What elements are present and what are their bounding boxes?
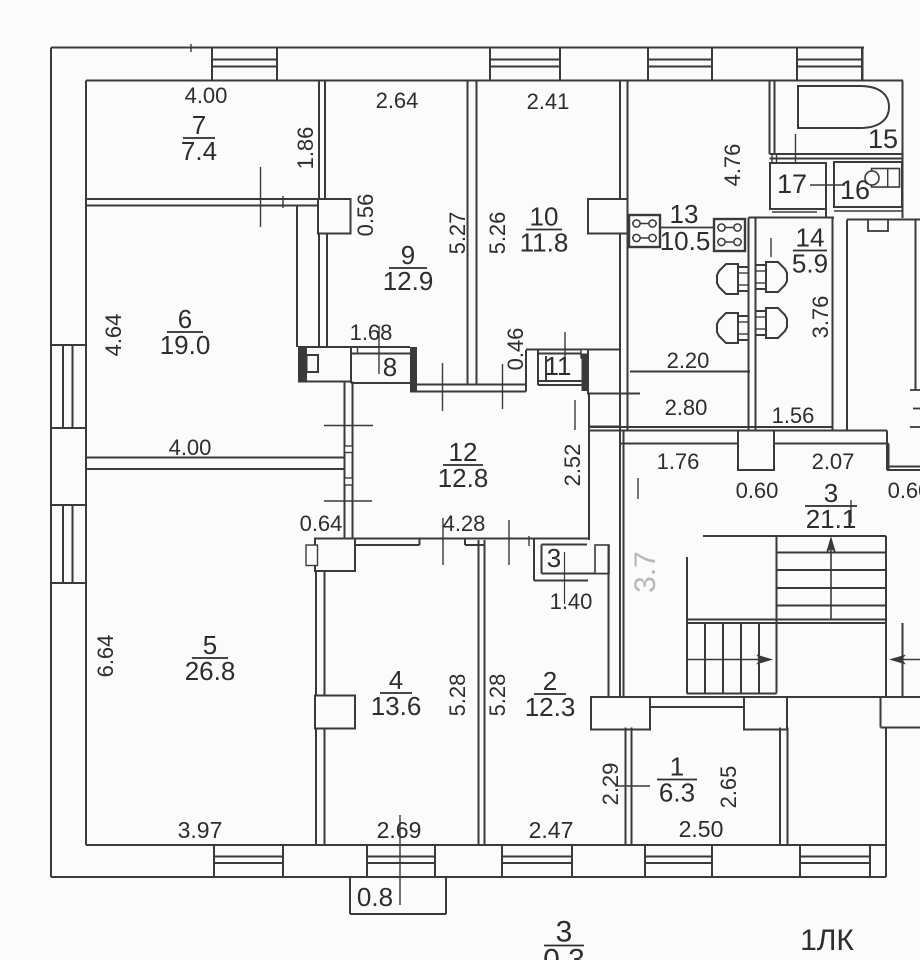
wall neighbour room east [915,220,917,391]
wall outer right upper line [902,81,904,219]
stair lower flight bottom [687,693,777,695]
block notch west [306,545,318,566]
dim 2.20 [667,348,710,373]
toilet east lower [756,308,788,338]
door tick room 2 to 1 [615,785,650,787]
svg-text:0.64: 0.64 [300,511,343,536]
dim 2.50 [679,816,724,842]
svg-text:4.00: 4.00 [185,83,228,108]
svg-text:3.7: 3.7 [629,551,662,593]
svg-text:2.20: 2.20 [667,348,710,373]
svg-text:0.60: 0.60 [888,478,920,503]
wall corridor 13 south header [630,371,750,373]
block mid on 5-4 wall [315,696,355,729]
dim 1.56 [772,403,815,428]
dim 0.60 right [888,478,920,503]
wall neighbour room north [847,219,920,221]
window top wall room 7 [212,48,277,81]
chimney block at 7-9-6 corner [318,199,351,234]
wall stair vestibule right step vertical [880,697,882,728]
wall between rooms 6 and 9 right lines [319,234,327,348]
wall between rooms 9 and 10 [468,81,477,385]
dim tick top wall [190,44,192,52]
stair upper flight box [777,536,887,697]
room 17 box [770,155,826,209]
svg-text:3: 3 [547,543,561,573]
room label 4 [371,665,422,721]
svg-text:4.64: 4.64 [101,314,126,357]
door tick room 15 [795,134,797,182]
svg-text:5.9: 5.9 [792,249,828,279]
dim tick 2.69 long [399,815,401,905]
dim 5.28 right vertical [485,674,510,717]
svg-text:2.80: 2.80 [665,395,708,420]
wall inner bottom line [86,844,886,846]
svg-text:2.41: 2.41 [527,89,570,114]
dim 2.41 top [527,89,570,114]
wall between corridor 13 and room 14 [749,218,756,431]
wall top of room 11 run [526,349,619,351]
wall neighbour room west [846,220,848,431]
wall between rooms 7 and 9 [319,81,325,200]
svg-text:1.76: 1.76 [657,449,700,474]
svg-text:3.97: 3.97 [178,817,223,843]
closet room 11 box [538,350,588,392]
sink in room 16 [865,169,900,188]
wall south of room 8 [410,385,526,392]
stair right arrow head [756,655,773,665]
svg-text:12.3: 12.3 [525,692,576,722]
porch box 0.8 [350,877,446,914]
bathtub in room 15 [798,86,889,128]
door jamb lower on 6-12 wall [345,478,353,485]
dim 0.46 vertical [503,328,528,371]
room label 11 [545,351,572,381]
room label 1 [657,752,697,808]
stair lower flight steps [705,623,777,694]
block room 1 north-west [591,697,650,730]
svg-text:21.1: 21.1 [806,504,857,534]
room 16 box [834,162,902,211]
room label 9 [383,240,434,296]
dim 1.68 [350,320,393,345]
door tick room 12 to 2 [508,520,510,565]
wall between rooms 4 and 2 [479,540,485,845]
window left wall room 5 [51,505,86,583]
stair left arrow [889,655,920,665]
room label 15 [868,124,898,154]
svg-text:0.46: 0.46 [503,328,528,371]
dim 1.86 vertical [293,127,318,170]
wall room 14 east [832,218,834,431]
door jamb upper on 6-12 wall [345,446,353,453]
svg-text:0.60: 0.60 [736,478,779,503]
svg-text:19.0: 19.0 [160,330,211,360]
svg-text:12.9: 12.9 [383,266,434,296]
svg-text:15: 15 [868,124,898,154]
wall between rooms 6 and 12 [345,382,353,539]
svg-text:12.8: 12.8 [438,463,489,493]
stair up arrow head [826,536,836,553]
stair right flight wall [902,623,904,697]
wall outer top line [51,47,864,49]
svg-text:2.07: 2.07 [812,449,855,474]
dim 4.76 vertical [720,144,745,187]
room label 10 [520,202,569,258]
wall between rooms 6 and 5 [86,458,345,470]
svg-text:8: 8 [383,352,397,382]
block room 1 north-east [744,697,787,730]
room label 16 [840,175,870,205]
door tick room 5 to 12 [324,500,372,502]
svg-text:10.5: 10.5 [660,226,711,256]
dim 4.00 mid [169,435,212,460]
dim 4.64 vertical [101,314,126,357]
dim 2.52 vertical [560,444,585,487]
dim 1.76 [657,449,700,474]
dim tick 1.76 west [637,478,639,499]
dim 2.80 [665,395,708,420]
wall top-right corner closure [862,48,864,82]
window left wall room 6 [51,345,86,428]
dim tick 2.07 east [850,500,852,523]
wall room 1 east [780,728,788,846]
svg-text:1.86: 1.86 [293,127,318,170]
dim 2.47 [529,817,574,843]
stair left wall [686,557,688,694]
wall hall 3 north outer [589,426,833,428]
dim 5.26 vertical [485,212,510,255]
room label 17 [777,169,807,199]
dim 0.56 vertical [353,194,378,237]
window marks right edge [910,390,920,427]
svg-text:4.76: 4.76 [720,144,745,187]
wall between rooms 7 and 6 [86,199,318,206]
wall outer bottom line [51,876,886,878]
room 17 east step [772,209,826,218]
label leader 13 [660,227,714,229]
svg-text:1ЛК: 1ЛК [800,924,854,957]
svg-text:4.28: 4.28 [443,511,486,536]
svg-text:17: 17 [777,169,807,199]
dim 3.97 [178,817,223,843]
wall hall south [620,696,920,698]
svg-text:26.8: 26.8 [185,656,236,686]
room label 7 [181,110,217,166]
wall inner top line [86,80,903,82]
dim 4.00 top [185,83,228,108]
dim 2.07 [812,449,855,474]
svg-text:1.40: 1.40 [550,589,593,614]
wall notch x529 [528,536,530,546]
dim 2.65 vertical [716,766,741,809]
dim 5.27 vertical [445,212,470,255]
dim 5.28 left vertical [445,674,470,717]
vent box east of 13 [714,219,745,251]
svg-text:13: 13 [670,199,699,229]
wall room 1 north inner [650,706,744,708]
wall room 15 west [770,81,775,155]
door tick room 6 to 12 [324,425,373,427]
dim 1.40 [550,589,593,614]
window top wall room 10 [490,48,560,81]
shaft block west part with niche [299,347,351,382]
svg-text:13.6: 13.6 [371,691,422,721]
wall step at x526 [525,350,527,392]
wall between rooms 6 and 9 left line [296,206,298,348]
label 1LK staircase [800,924,854,957]
wall outer right lower line [885,728,887,878]
window top wall room 15 [797,48,862,81]
dim 2.64 top [376,88,419,113]
dim 4.28 [443,511,486,536]
room label 3 hall [805,478,857,534]
svg-text:2.47: 2.47 [529,817,574,843]
svg-text:5.27: 5.27 [445,212,470,255]
chimney block room 11 east lower [588,394,640,541]
room label 2 [525,666,576,722]
chimney block room 10 east [588,199,628,234]
duct box right of closet 3 [595,545,609,574]
stair upper flight top line [703,535,886,537]
block at top of 5-4 wall [315,539,355,572]
dim tick 1.40 [564,552,566,604]
door tick 1.68 dimension [378,326,380,374]
dim tick 4.28 [442,518,444,565]
window bottom wall stair hall [800,845,870,877]
door tick room 9 entry [442,363,444,411]
wall hall 3 inner line east [620,443,889,445]
vent box west of 13 [629,215,660,247]
svg-text:5.28: 5.28 [485,674,510,717]
door tick room 10 south [502,364,504,409]
window bottom wall room 4 [367,845,435,877]
dim tick 2.80 west [574,400,576,430]
dim tick 0.46 [564,332,566,364]
dim 2.29 vertical [598,763,623,806]
wall between room 10 and corridor 13 [620,81,628,698]
wall between rooms 12 and 2 upper [355,539,588,546]
wall between rooms 5 and 4 [316,571,325,845]
dim 0.60 left [736,478,779,503]
svg-text:3.76: 3.76 [808,296,833,339]
svg-text:5.28: 5.28 [445,674,470,717]
entry door block [738,431,774,471]
svg-text:16: 16 [840,175,870,205]
window bottom wall room 1 [645,845,712,877]
window top wall room 13 [648,48,712,81]
window bottom wall room 2 [502,845,572,877]
pillar on neighbour north wall [868,220,888,232]
dim 3.7 vertical grey [629,551,662,593]
toilet west lower [717,313,749,343]
svg-text:2.65: 2.65 [716,766,741,809]
svg-text:7.4: 7.4 [181,136,217,166]
stair lower flight center line [687,659,764,661]
dim 2.69 [377,817,422,843]
wall room 1 west [626,728,632,846]
wall hall west second line [623,431,625,698]
dim tick 5.9 [770,238,772,257]
svg-text:5.26: 5.26 [485,212,510,255]
wall stair entry south lines [887,467,920,471]
svg-text:6.64: 6.64 [93,635,118,678]
toilet west upper [717,264,749,294]
svg-text:2.52: 2.52 [560,444,585,487]
dim 3.76 vertical [808,296,833,339]
room label 3 bottom [543,916,585,960]
wall hall 3 north inner [589,430,887,432]
svg-text:4.00: 4.00 [169,435,212,460]
closet 3 number [547,543,561,573]
wall notch at room 7-6 wall [282,196,284,208]
closet room 8 box [351,347,417,391]
chimney block room 11 east upper [588,350,620,394]
dim 0.64 [300,511,343,536]
closet room 3 box [534,539,609,581]
svg-text:2.29: 2.29 [598,763,623,806]
svg-text:0.56: 0.56 [353,194,378,237]
svg-text:0.3: 0.3 [543,944,585,960]
svg-text:1.68: 1.68 [350,320,393,345]
label leader 17 to 16 [810,184,845,186]
wall stair vestibule right step horizontal [881,727,920,729]
room label 5 [185,630,236,686]
svg-text:0.8: 0.8 [357,882,393,912]
stair landing line upper [687,620,886,624]
dim 6.64 vertical [93,635,118,678]
room label 8 [383,352,397,382]
dim 0.8 porch [357,882,393,912]
svg-text:11.8: 11.8 [520,228,569,258]
wall below room 15 [770,154,903,159]
wall inner left line [85,81,87,846]
room label 13 [660,199,711,256]
room label 6 [160,304,211,360]
svg-text:6.3: 6.3 [659,778,695,808]
svg-text:2.69: 2.69 [377,817,422,843]
door tick room 7 to 6 [260,167,262,227]
wall room 14 north [749,217,835,219]
wall between room 2 and hall [609,350,621,698]
svg-text:2.64: 2.64 [376,88,419,113]
toilet east upper [756,262,788,292]
stair upper flight steps [777,553,887,606]
stair upper flight center line [830,545,832,620]
room label 14 [792,223,828,279]
wall stairwell east upper [887,431,889,471]
wall outer left line [50,48,52,878]
room label 12 [438,437,489,493]
window bottom wall room 5 [214,845,283,877]
svg-text:1.56: 1.56 [772,403,815,428]
svg-text:11: 11 [545,351,572,381]
svg-text:2.50: 2.50 [679,816,724,842]
